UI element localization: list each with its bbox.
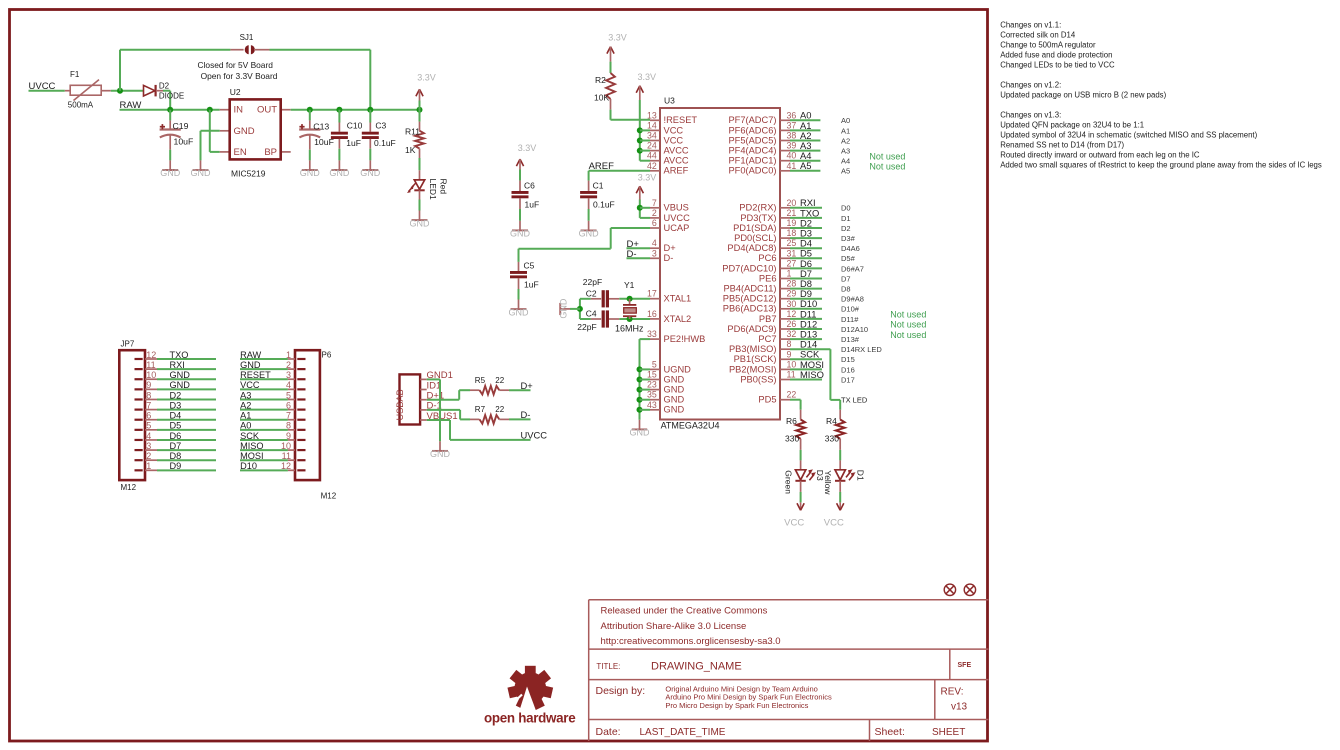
svg-text:10: 10 xyxy=(281,441,291,451)
svg-text:Not used: Not used xyxy=(890,310,926,320)
svg-text:22: 22 xyxy=(495,376,504,385)
svg-text:28: 28 xyxy=(787,279,797,289)
svg-text:9: 9 xyxy=(286,431,291,441)
svg-text:VCC: VCC xyxy=(240,380,260,390)
svg-text:PF0(ADC0): PF0(ADC0) xyxy=(728,166,776,176)
svg-text:Changes on v1.2:: Changes on v1.2: xyxy=(1000,81,1061,90)
svg-text:M12: M12 xyxy=(321,492,337,501)
svg-text:F1: F1 xyxy=(70,70,80,79)
svg-text:22pF: 22pF xyxy=(583,277,602,287)
svg-text:open hardware: open hardware xyxy=(484,710,575,725)
svg-text:38: 38 xyxy=(787,131,797,141)
svg-text:Routed directly inward or outw: Routed directly inward or outward from e… xyxy=(1000,151,1200,160)
svg-text:C1: C1 xyxy=(593,181,604,191)
svg-text:9: 9 xyxy=(787,349,792,359)
svg-text:VCC: VCC xyxy=(784,517,804,528)
svg-text:SFE: SFE xyxy=(958,662,972,669)
svg-text:A3: A3 xyxy=(240,390,251,400)
svg-text:13: 13 xyxy=(647,110,657,120)
svg-text:D13#: D13# xyxy=(841,335,860,344)
svg-text:XTAL1: XTAL1 xyxy=(664,294,692,304)
svg-text:37: 37 xyxy=(787,120,797,130)
svg-text:PF6(ADC6): PF6(ADC6) xyxy=(728,125,776,135)
svg-text:A0: A0 xyxy=(841,116,850,125)
svg-text:SCK: SCK xyxy=(240,431,260,441)
svg-text:EN: EN xyxy=(234,147,247,158)
svg-text:PD3(TX): PD3(TX) xyxy=(740,213,776,223)
svg-text:D3: D3 xyxy=(170,400,182,410)
svg-text:A5: A5 xyxy=(841,167,850,176)
svg-text:VCC: VCC xyxy=(664,135,684,145)
svg-text:U3: U3 xyxy=(664,96,675,106)
svg-text:D4A6: D4A6 xyxy=(841,244,860,253)
svg-text:v13: v13 xyxy=(951,701,968,712)
svg-text:D0: D0 xyxy=(841,204,851,213)
svg-text:GND: GND xyxy=(630,428,651,438)
svg-text:4: 4 xyxy=(652,238,657,248)
svg-text:Not used: Not used xyxy=(869,162,905,172)
svg-text:UVCC: UVCC xyxy=(664,213,691,223)
svg-text:PB3(MISO): PB3(MISO) xyxy=(729,344,777,354)
svg-text:A2: A2 xyxy=(841,136,850,145)
svg-text:U2: U2 xyxy=(230,87,241,97)
svg-text:D6: D6 xyxy=(170,431,182,441)
svg-text:D12A10: D12A10 xyxy=(841,325,868,334)
svg-text:C6: C6 xyxy=(524,181,535,191)
svg-text:REV:: REV: xyxy=(941,686,964,697)
svg-text:P6: P6 xyxy=(322,350,332,359)
svg-text:GND: GND xyxy=(234,126,255,137)
svg-text:XTAL2: XTAL2 xyxy=(664,314,692,324)
svg-text:R4: R4 xyxy=(826,416,837,426)
svg-text:6: 6 xyxy=(286,400,291,410)
svg-text:4: 4 xyxy=(286,380,291,390)
svg-text:34: 34 xyxy=(647,131,657,141)
svg-text:17: 17 xyxy=(647,289,657,299)
svg-text:JP7: JP7 xyxy=(121,339,135,348)
svg-text:D14RX LED: D14RX LED xyxy=(841,345,882,354)
svg-text:RXI: RXI xyxy=(170,360,185,370)
svg-text:Yellow: Yellow xyxy=(823,470,833,495)
svg-text:MIC5219: MIC5219 xyxy=(231,168,266,178)
svg-text:GND: GND xyxy=(170,380,191,390)
svg-text:PE6: PE6 xyxy=(759,273,777,283)
svg-text:TXO: TXO xyxy=(170,350,189,360)
svg-text:PB4(ADC11): PB4(ADC11) xyxy=(723,284,776,294)
svg-text:GND: GND xyxy=(300,168,321,178)
svg-text:31: 31 xyxy=(787,248,797,258)
svg-text:R11: R11 xyxy=(405,126,420,136)
svg-text:MISO: MISO xyxy=(800,369,824,380)
svg-text:Green: Green xyxy=(784,470,794,494)
svg-text:C2: C2 xyxy=(586,288,597,298)
svg-text:UGND: UGND xyxy=(664,364,692,374)
svg-text:330: 330 xyxy=(785,434,799,444)
svg-text:15: 15 xyxy=(647,370,657,380)
svg-text:LED1: LED1 xyxy=(428,179,438,201)
svg-text:TITLE:: TITLE: xyxy=(596,662,620,671)
svg-text:LAST_DATE_TIME: LAST_DATE_TIME xyxy=(640,727,726,738)
svg-text:3: 3 xyxy=(652,248,657,258)
svg-text:PB5(ADC12): PB5(ADC12) xyxy=(723,294,777,304)
svg-text:22pF: 22pF xyxy=(577,322,596,332)
svg-text:12: 12 xyxy=(281,461,291,471)
svg-text:7: 7 xyxy=(286,411,291,421)
svg-text:500mA: 500mA xyxy=(68,101,94,110)
svg-text:DIODE: DIODE xyxy=(159,92,184,101)
svg-text:5: 5 xyxy=(286,390,291,400)
svg-text:PB7: PB7 xyxy=(759,314,777,324)
svg-text:22: 22 xyxy=(495,405,504,414)
svg-text:D16: D16 xyxy=(841,365,855,374)
svg-text:12: 12 xyxy=(787,309,797,319)
svg-text:9: 9 xyxy=(146,380,151,390)
svg-text:3.3V: 3.3V xyxy=(638,173,657,183)
svg-text:Changes on v1.1:: Changes on v1.1: xyxy=(1000,21,1061,30)
svg-text:32: 32 xyxy=(787,329,797,339)
svg-text:Not used: Not used xyxy=(869,151,905,161)
svg-text:D2: D2 xyxy=(159,81,170,90)
svg-text:UCAP: UCAP xyxy=(664,223,690,233)
svg-text:PD7(ADC10): PD7(ADC10) xyxy=(722,263,776,273)
svg-text:C3: C3 xyxy=(375,121,386,131)
svg-text:PB0(SS): PB0(SS) xyxy=(740,374,776,384)
svg-text:D9: D9 xyxy=(170,461,182,471)
svg-text:PF7(ADC7): PF7(ADC7) xyxy=(728,115,776,125)
svg-text:Released under the Creative Co: Released under the Creative Commons xyxy=(601,606,768,617)
svg-text:14: 14 xyxy=(647,120,657,130)
svg-text:D6#A7: D6#A7 xyxy=(841,264,864,273)
svg-text:1: 1 xyxy=(286,350,291,360)
svg-text:4: 4 xyxy=(146,431,151,441)
svg-text:D10#: D10# xyxy=(841,305,860,314)
svg-text:GND: GND xyxy=(160,168,181,178)
svg-text:22: 22 xyxy=(787,390,797,400)
svg-text:35: 35 xyxy=(647,390,657,400)
svg-text:D5#: D5# xyxy=(841,254,856,263)
svg-text:VCC: VCC xyxy=(824,517,844,528)
svg-text:TX LED: TX LED xyxy=(841,395,868,404)
svg-text:29: 29 xyxy=(787,289,797,299)
svg-text:0.1uF: 0.1uF xyxy=(374,138,396,148)
svg-text:GND: GND xyxy=(410,218,431,228)
svg-text:42: 42 xyxy=(647,161,657,171)
svg-text:R2: R2 xyxy=(595,75,606,85)
svg-text:3.3V: 3.3V xyxy=(638,72,657,82)
svg-text:Added two small squares of tRe: Added two small squares of tRestrict to … xyxy=(1000,161,1322,170)
svg-text:7: 7 xyxy=(652,198,657,208)
svg-text:UVCC: UVCC xyxy=(521,429,548,440)
svg-text:36: 36 xyxy=(787,110,797,120)
svg-text:PB6(ADC13): PB6(ADC13) xyxy=(723,304,777,314)
svg-text:Y1: Y1 xyxy=(624,280,635,290)
svg-text:AREF: AREF xyxy=(664,166,689,176)
svg-text:21: 21 xyxy=(787,208,797,218)
svg-text:D4: D4 xyxy=(170,411,182,421)
svg-text:PF5(ADC5): PF5(ADC5) xyxy=(728,135,776,145)
svg-text:PD0(SCL): PD0(SCL) xyxy=(734,233,776,243)
svg-text:330: 330 xyxy=(825,434,839,444)
svg-text:Open for 3.3V Board: Open for 3.3V Board xyxy=(201,71,278,81)
svg-text:1uF: 1uF xyxy=(525,199,540,209)
svg-text:A1: A1 xyxy=(240,411,251,421)
svg-text:39: 39 xyxy=(787,141,797,151)
svg-text:PC6: PC6 xyxy=(758,253,776,263)
svg-text:2: 2 xyxy=(146,451,151,461)
svg-text:Updated QFN package on 32U4 to: Updated QFN package on 32U4 to be 1:1 xyxy=(1000,121,1144,130)
svg-text:10K: 10K xyxy=(594,93,609,103)
svg-text:24: 24 xyxy=(647,141,657,151)
svg-text:ATMEGA32U4: ATMEGA32U4 xyxy=(661,421,720,431)
svg-text:Change to 500mA regulator: Change to 500mA regulator xyxy=(1000,41,1096,50)
svg-text:D15: D15 xyxy=(841,355,855,364)
svg-text:RAW: RAW xyxy=(240,350,261,360)
svg-text:D11#: D11# xyxy=(841,315,859,324)
svg-text:1K: 1K xyxy=(405,145,416,155)
svg-text:A4: A4 xyxy=(841,157,850,166)
svg-text:10: 10 xyxy=(146,370,156,380)
svg-text:Red: Red xyxy=(439,179,449,195)
svg-text:8: 8 xyxy=(787,339,792,349)
svg-text:VBUS: VBUS xyxy=(664,203,689,213)
svg-text:D1: D1 xyxy=(856,470,866,481)
svg-text:D+: D+ xyxy=(521,380,534,391)
svg-text:BP: BP xyxy=(264,147,277,158)
svg-text:5: 5 xyxy=(652,359,657,369)
svg-text:D-: D- xyxy=(521,409,531,420)
svg-text:40: 40 xyxy=(787,151,797,161)
svg-text:PD2(RX): PD2(RX) xyxy=(739,203,776,213)
svg-text:D8: D8 xyxy=(170,451,182,461)
svg-text:GND: GND xyxy=(664,395,685,405)
svg-text:MISO: MISO xyxy=(240,441,263,451)
svg-text:2: 2 xyxy=(286,360,291,370)
svg-text:GND: GND xyxy=(240,360,261,370)
svg-text:GND: GND xyxy=(579,229,600,239)
svg-text:1uF: 1uF xyxy=(524,279,539,289)
svg-text:GND: GND xyxy=(509,307,530,317)
svg-text:PD6(ADC9): PD6(ADC9) xyxy=(727,324,776,334)
svg-text:10: 10 xyxy=(787,359,797,369)
svg-text:R5: R5 xyxy=(475,376,486,385)
svg-text:GND: GND xyxy=(558,298,568,319)
svg-text:3: 3 xyxy=(286,370,291,380)
svg-text:25: 25 xyxy=(787,238,797,248)
svg-text:Sheet:: Sheet: xyxy=(875,726,905,738)
svg-text:3: 3 xyxy=(146,441,151,451)
svg-text:PE2!HWB: PE2!HWB xyxy=(664,334,706,344)
svg-text:10uF: 10uF xyxy=(174,137,194,147)
svg-text:GND: GND xyxy=(360,168,381,178)
svg-text:D5: D5 xyxy=(170,421,182,431)
svg-text:20: 20 xyxy=(787,198,797,208)
svg-text:Closed for 5V Board: Closed for 5V Board xyxy=(198,60,274,70)
svg-text:!RESET: !RESET xyxy=(664,115,698,125)
svg-text:Updated package on USB micro B: Updated package on USB micro B (2 new pa… xyxy=(1000,91,1166,100)
svg-text:8: 8 xyxy=(286,421,291,431)
svg-text:SJ1: SJ1 xyxy=(240,33,254,42)
svg-text:R7: R7 xyxy=(475,405,486,414)
svg-text:3.3V: 3.3V xyxy=(608,32,627,42)
svg-text:6: 6 xyxy=(652,218,657,228)
svg-text:GND: GND xyxy=(664,405,685,415)
svg-text:Renamed SS net to D14 (from D1: Renamed SS net to D14 (from D17) xyxy=(1000,141,1124,150)
svg-text:11: 11 xyxy=(146,360,155,370)
svg-text:Corrected silk on D14: Corrected silk on D14 xyxy=(1000,31,1076,40)
svg-text:C4: C4 xyxy=(586,309,597,319)
svg-text:26: 26 xyxy=(787,319,797,329)
svg-text:D10: D10 xyxy=(240,461,257,471)
svg-text:GND: GND xyxy=(510,229,531,239)
svg-text:C5: C5 xyxy=(524,260,535,270)
svg-text:C10: C10 xyxy=(347,121,363,131)
svg-text:D3#: D3# xyxy=(841,234,856,243)
svg-text:D7: D7 xyxy=(841,274,851,283)
svg-text:AVCC: AVCC xyxy=(664,146,689,156)
svg-text:A3: A3 xyxy=(841,147,850,156)
svg-text:16: 16 xyxy=(647,309,657,319)
svg-text:43: 43 xyxy=(647,400,657,410)
svg-text:A2: A2 xyxy=(240,400,251,410)
svg-text:6: 6 xyxy=(146,411,151,421)
svg-text:R6: R6 xyxy=(786,416,797,426)
svg-text:19: 19 xyxy=(787,218,797,228)
svg-text:Changes on v1.3:: Changes on v1.3: xyxy=(1000,111,1061,120)
svg-text:11: 11 xyxy=(282,451,291,461)
svg-text:D-: D- xyxy=(664,253,674,263)
svg-text:33: 33 xyxy=(647,329,657,339)
svg-text:41: 41 xyxy=(787,161,797,171)
svg-text:7: 7 xyxy=(146,400,151,410)
svg-text:A0: A0 xyxy=(240,421,251,431)
svg-text:D2: D2 xyxy=(170,390,182,400)
svg-text:USBAB: USBAB xyxy=(395,389,405,420)
svg-text:SHEET: SHEET xyxy=(932,727,965,738)
svg-text:D2: D2 xyxy=(841,224,851,233)
svg-text:D+: D+ xyxy=(664,243,676,253)
svg-text:16MHz: 16MHz xyxy=(615,323,644,333)
svg-text:PB2(MOSI): PB2(MOSI) xyxy=(729,364,777,374)
svg-text:GND: GND xyxy=(430,449,451,459)
svg-text:8: 8 xyxy=(146,390,151,400)
svg-text:Pro Micro Design by Spark Fun: Pro Micro Design by Spark Fun Electronic… xyxy=(665,701,808,710)
svg-text:DRAWING_NAME: DRAWING_NAME xyxy=(651,661,742,673)
svg-text:30: 30 xyxy=(787,299,797,309)
svg-text:Not used: Not used xyxy=(890,330,926,340)
svg-text:A5: A5 xyxy=(800,160,811,171)
svg-text:2: 2 xyxy=(652,208,657,218)
svg-text:PD4(ADC8): PD4(ADC8) xyxy=(727,243,776,253)
svg-text:18: 18 xyxy=(787,228,797,238)
svg-text:D8: D8 xyxy=(841,285,851,294)
svg-text:GND: GND xyxy=(170,370,191,380)
svg-text:Attribution Share-Alike 3.0 Li: Attribution Share-Alike 3.0 License xyxy=(601,621,747,632)
svg-text:GND: GND xyxy=(664,374,685,384)
svg-text:23: 23 xyxy=(647,380,657,390)
svg-text:PF1(ADC1): PF1(ADC1) xyxy=(728,156,776,166)
svg-text:http:creativecommons.orglicens: http:creativecommons.orglicensesby-sa3.0 xyxy=(601,636,781,647)
svg-text:PD5: PD5 xyxy=(758,395,776,405)
svg-text:1uF: 1uF xyxy=(346,138,361,148)
svg-text:1: 1 xyxy=(146,461,151,471)
svg-text:D17: D17 xyxy=(841,375,855,384)
svg-text:27: 27 xyxy=(787,258,797,268)
svg-text:D7: D7 xyxy=(170,441,182,451)
svg-text:C13: C13 xyxy=(313,121,329,131)
svg-text:Design by:: Design by: xyxy=(596,685,646,697)
svg-text:1: 1 xyxy=(787,269,792,279)
svg-text:3.3V: 3.3V xyxy=(417,72,436,82)
svg-text:PB1(SCK): PB1(SCK) xyxy=(734,354,777,364)
svg-text:44: 44 xyxy=(647,151,657,161)
svg-text:IN: IN xyxy=(234,105,244,116)
svg-text:12: 12 xyxy=(146,350,156,360)
svg-text:Added fuse and diode protectio: Added fuse and diode protection xyxy=(1000,51,1112,60)
svg-text:AVCC: AVCC xyxy=(664,156,689,166)
svg-text:C19: C19 xyxy=(173,121,189,131)
svg-text:Changed LEDs to be tied to VCC: Changed LEDs to be tied to VCC xyxy=(1000,61,1115,70)
svg-text:GND: GND xyxy=(664,385,685,395)
svg-text:A1: A1 xyxy=(841,126,850,135)
svg-text:PF4(ADC4): PF4(ADC4) xyxy=(728,146,776,156)
svg-text:3.3V: 3.3V xyxy=(518,143,537,153)
svg-text:GND: GND xyxy=(191,168,212,178)
svg-text:Not used: Not used xyxy=(890,320,926,330)
svg-text:GND: GND xyxy=(329,168,350,178)
svg-text:Updated symbol of 32U4 in sche: Updated symbol of 32U4 in schematic (swi… xyxy=(1000,131,1257,140)
svg-text:MOSI: MOSI xyxy=(240,451,263,461)
svg-text:5: 5 xyxy=(146,421,151,431)
svg-text:D9#A8: D9#A8 xyxy=(841,295,864,304)
svg-text:PC7: PC7 xyxy=(758,334,776,344)
svg-text:PD1(SDA): PD1(SDA) xyxy=(733,223,776,233)
svg-text:OUT: OUT xyxy=(257,105,277,116)
svg-text:Date:: Date: xyxy=(596,726,621,738)
svg-text:0.1uF: 0.1uF xyxy=(593,199,615,209)
svg-text:M12: M12 xyxy=(121,483,137,492)
svg-text:11: 11 xyxy=(787,370,796,380)
svg-text:RESET: RESET xyxy=(240,370,271,380)
svg-text:VCC: VCC xyxy=(664,125,684,135)
svg-text:D1: D1 xyxy=(841,214,851,223)
